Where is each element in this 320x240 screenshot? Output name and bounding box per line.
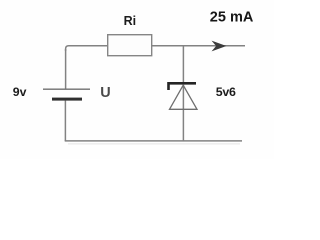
- svg-text:5v6: 5v6: [216, 85, 236, 99]
- svg-text:25 mA: 25 mA: [210, 9, 254, 25]
- svg-text:9v: 9v: [13, 85, 27, 99]
- svg-text:Ri: Ri: [124, 14, 137, 28]
- svg-text:U: U: [100, 85, 110, 101]
